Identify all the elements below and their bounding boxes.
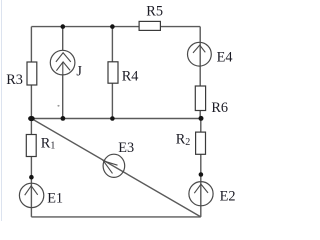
svg-text:R3: R3 bbox=[6, 72, 23, 88]
svg-text:R2: R2 bbox=[176, 131, 191, 147]
svg-text:E4: E4 bbox=[217, 50, 233, 66]
svg-text:J: J bbox=[76, 64, 82, 80]
svg-text:R6: R6 bbox=[211, 100, 228, 116]
svg-text:E1: E1 bbox=[47, 191, 63, 207]
svg-text:E2: E2 bbox=[220, 189, 236, 205]
svg-text:E3: E3 bbox=[118, 140, 134, 156]
svg-text:R5: R5 bbox=[146, 4, 163, 20]
svg-text:R4: R4 bbox=[122, 68, 139, 84]
svg-text:R1: R1 bbox=[41, 136, 56, 152]
